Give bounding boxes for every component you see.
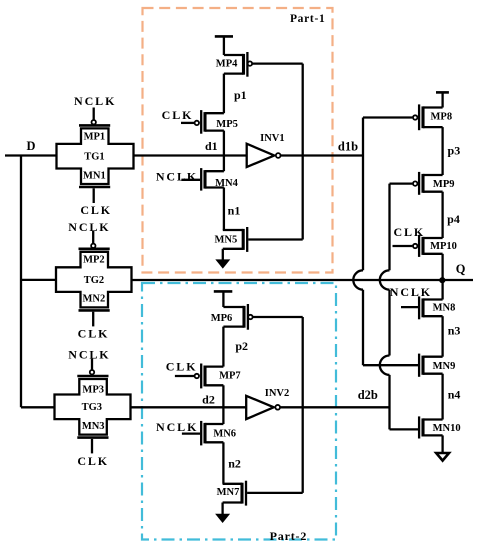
svg-text:d1b: d1b	[338, 139, 358, 153]
node p1	[223, 74, 225, 114]
svg-text:CLK: CLK	[162, 108, 194, 122]
svg-text:MP9: MP9	[433, 179, 455, 190]
svg-text:MN10: MN10	[433, 423, 461, 434]
svg-text:p1: p1	[234, 88, 247, 102]
svg-text:MN9: MN9	[433, 361, 456, 372]
transistor MN9	[363, 354, 455, 377]
wire d1b	[280, 154, 363, 156]
svg-text:MN3: MN3	[82, 421, 105, 432]
svg-text:p4: p4	[447, 212, 460, 226]
svg-text:MP7: MP7	[219, 371, 241, 382]
ground part-1	[215, 249, 230, 269]
node n3	[441, 316, 443, 357]
Part-1 dashed box	[143, 8, 333, 273]
svg-text:MP5: MP5	[216, 119, 238, 130]
svg-text:n1: n1	[228, 204, 241, 218]
wire D to TG3	[21, 406, 55, 408]
op-amp INV2	[246, 388, 289, 419]
svg-text:MP10: MP10	[430, 241, 457, 252]
transmission gate TG1	[57, 94, 134, 217]
svg-text:MN7: MN7	[217, 487, 240, 498]
svg-text:MP3: MP3	[82, 384, 104, 395]
node n2	[222, 442, 224, 484]
node p4	[441, 192, 443, 238]
svg-text:MN1: MN1	[83, 171, 106, 182]
svg-text:Part-2: Part-2	[270, 529, 307, 543]
transistor MP5	[181, 110, 238, 134]
wire D vertical branch	[20, 156, 22, 408]
svg-text:NCLK: NCLK	[390, 285, 432, 299]
wire feedback part-2	[302, 317, 304, 493]
wire d2b net vertical	[380, 184, 390, 430]
transistor MP7	[175, 364, 241, 389]
svg-text:p3: p3	[448, 144, 461, 158]
svg-text:CLK: CLK	[393, 225, 425, 239]
svg-text:CLK: CLK	[77, 454, 109, 468]
transistor MN7	[217, 481, 303, 506]
svg-text:MN6: MN6	[213, 429, 236, 440]
svg-text:MN4: MN4	[215, 178, 238, 189]
transistor MP4	[216, 52, 303, 77]
node d2	[222, 385, 224, 424]
VDD bar right	[436, 92, 449, 107]
svg-text:MN2: MN2	[83, 294, 106, 305]
svg-text:n3: n3	[448, 323, 461, 337]
transistor MN4	[181, 168, 238, 191]
svg-text:n4: n4	[448, 388, 461, 402]
wire d1b net vertical	[353, 118, 363, 366]
svg-text:Q: Q	[456, 262, 466, 276]
svg-text:d1: d1	[205, 139, 218, 153]
svg-text:n2: n2	[228, 457, 241, 471]
svg-text:MN5: MN5	[215, 235, 238, 246]
svg-text:d2b: d2b	[358, 388, 378, 402]
svg-text:MP4: MP4	[216, 59, 238, 70]
node d1	[223, 131, 225, 172]
wire Q row	[132, 279, 474, 281]
svg-text:MP1: MP1	[84, 131, 106, 142]
transistor MP8	[363, 104, 452, 130]
transistor MN8	[401, 296, 455, 319]
svg-text:d2: d2	[202, 393, 215, 407]
svg-text:INV2: INV2	[265, 388, 290, 399]
svg-text:CLK: CLK	[80, 203, 112, 217]
svg-text:MP6: MP6	[211, 313, 233, 324]
svg-text:MP8: MP8	[431, 111, 453, 122]
transmission gate TG3	[55, 348, 131, 468]
svg-text:NCLK: NCLK	[74, 94, 116, 108]
ground part-2	[215, 503, 230, 524]
transistor MN5	[215, 227, 303, 252]
wire feedback part-1	[302, 64, 304, 240]
transistor MP10	[393, 235, 457, 257]
wire d2b	[279, 406, 389, 408]
op-amp INV1	[247, 133, 285, 167]
svg-text:p2: p2	[235, 339, 248, 353]
node n4	[441, 374, 443, 420]
svg-text:D: D	[27, 139, 36, 153]
svg-text:TG3: TG3	[82, 402, 102, 413]
svg-text:NCLK: NCLK	[156, 420, 198, 434]
ground right	[436, 435, 449, 460]
node p3	[441, 127, 443, 175]
wire d2 row	[131, 406, 247, 408]
wire D input	[5, 154, 57, 156]
svg-text:MP2: MP2	[83, 255, 105, 266]
svg-text:Part-1: Part-1	[290, 13, 326, 25]
svg-text:CLK: CLK	[78, 327, 110, 341]
svg-text:TG2: TG2	[84, 275, 104, 286]
svg-text:NCLK: NCLK	[68, 348, 110, 362]
svg-text:TG1: TG1	[84, 152, 104, 163]
transistor MN10	[390, 416, 461, 438]
node n1	[223, 188, 225, 231]
Part-2 dash-dot box	[142, 283, 336, 543]
svg-text:CLK: CLK	[166, 359, 198, 373]
junction Q	[439, 277, 445, 283]
wire d1 row	[134, 154, 247, 156]
transistor MP6	[211, 304, 303, 330]
transistor MN6	[182, 421, 236, 446]
svg-text:NCLK: NCLK	[156, 170, 198, 184]
wire D to TG2	[21, 279, 57, 281]
transmission gate TG2	[56, 220, 132, 340]
svg-text:MN8: MN8	[433, 303, 456, 314]
svg-text:NCLK: NCLK	[68, 220, 110, 234]
VDD bar part-1	[215, 36, 233, 55]
node p2	[222, 327, 224, 367]
wire Q column	[441, 254, 443, 300]
svg-text:INV1: INV1	[260, 133, 285, 144]
transistor MP9	[390, 172, 455, 195]
VDD bar part-2	[214, 291, 233, 307]
